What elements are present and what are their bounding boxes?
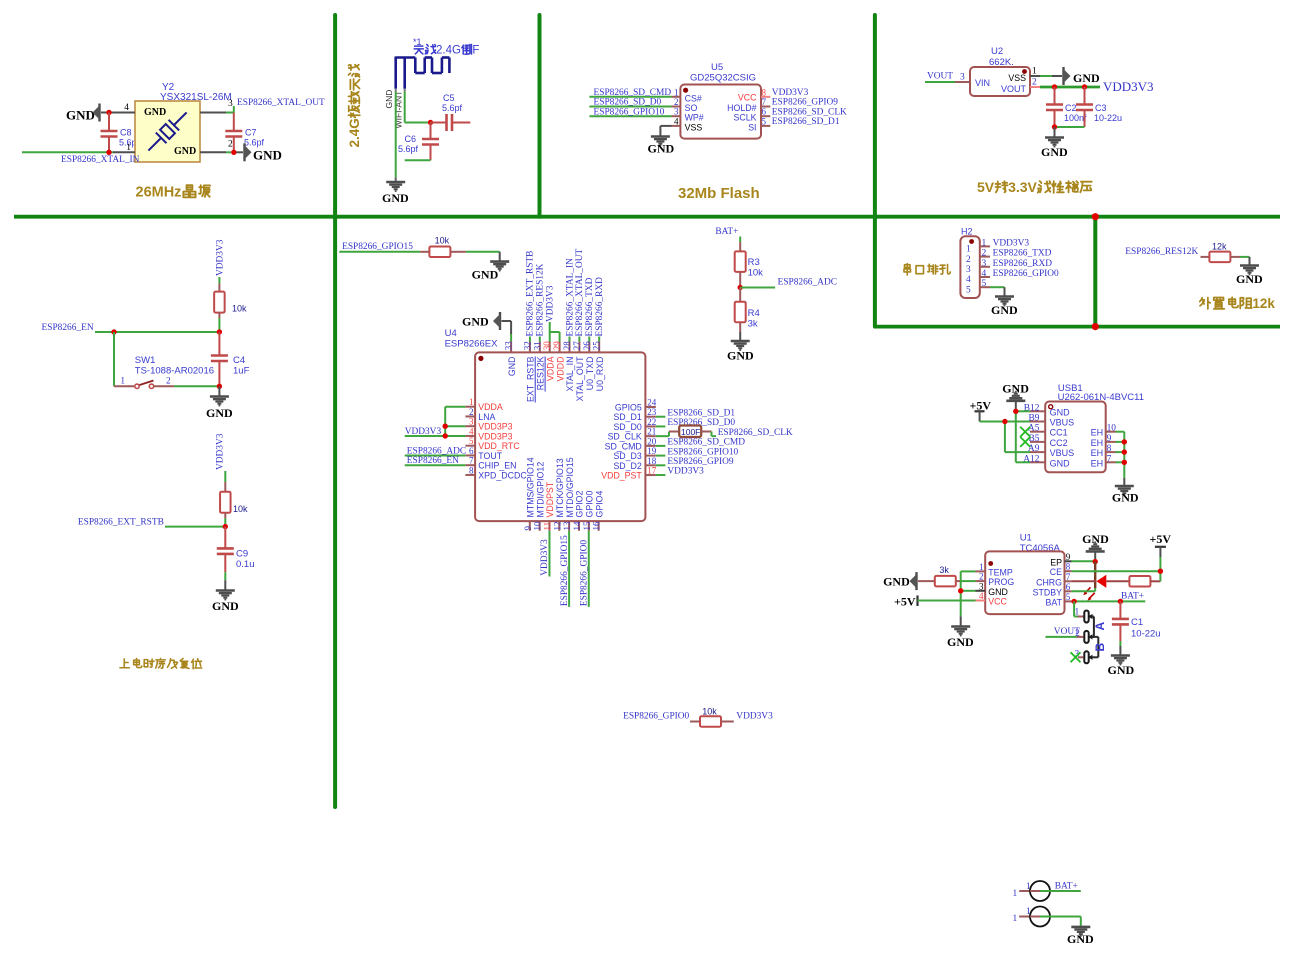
chip U4 pin 24 GPIO5 bbox=[615, 398, 657, 413]
svg-text:BAT: BAT bbox=[1046, 597, 1063, 607]
pin number 3 (U2) bbox=[960, 73, 965, 83]
section title 5V to 3.3V LDO bbox=[977, 179, 1092, 195]
svg-text:F: F bbox=[472, 45, 479, 57]
svg-text:2: 2 bbox=[966, 255, 971, 265]
svg-text:10k: 10k bbox=[232, 304, 247, 314]
flash U5 pin 8 VCC bbox=[738, 87, 770, 102]
svg-text:ESP8266_GPIO0: ESP8266_GPIO0 bbox=[623, 712, 689, 722]
wire pad P2 to ground bbox=[1080, 917, 1082, 926]
wire ESP8266_XTAL_IN bbox=[22, 151, 135, 153]
svg-text:1: 1 bbox=[982, 238, 987, 248]
svg-text:3: 3 bbox=[228, 99, 233, 109]
node label ESP8266_EXT_RSTB (U4 top, vertical) bbox=[526, 251, 536, 337]
svg-text:14: 14 bbox=[572, 521, 582, 531]
svg-text:4: 4 bbox=[469, 426, 474, 436]
svg-text:100F: 100F bbox=[681, 427, 700, 437]
node label ESP8266_RES12K bbox=[1125, 247, 1198, 257]
svg-text:A5: A5 bbox=[1028, 424, 1040, 434]
charger U1 pin 9 EP bbox=[1050, 552, 1071, 568]
svg-text:EH: EH bbox=[1091, 458, 1104, 468]
node junction C4-SW1-gnd bbox=[217, 384, 222, 389]
section border vertical left bbox=[333, 15, 337, 807]
svg-text:21: 21 bbox=[647, 427, 656, 437]
svg-text:29: 29 bbox=[552, 341, 562, 351]
wire antenna gnd leg bbox=[395, 89, 397, 178]
flash U5 body bbox=[680, 85, 761, 139]
svg-text:4: 4 bbox=[966, 275, 971, 285]
capacitor C3 10-22u bbox=[1076, 87, 1122, 127]
node label ESP8266_GPIO9 (U5 right) bbox=[772, 98, 838, 108]
svg-text:ESP8266_GPIO9: ESP8266_GPIO9 bbox=[667, 457, 733, 467]
node label ESP8266_XTAL_IN bbox=[61, 155, 140, 165]
svg-text:3.3V: 3.3V bbox=[1008, 179, 1037, 195]
svg-text:GND: GND bbox=[648, 142, 675, 156]
chip U4 pin 19 SD_D3 bbox=[613, 446, 656, 461]
wire U4 bottom pin 11 bbox=[548, 531, 550, 577]
svg-text:ESP8266_GPIO10: ESP8266_GPIO10 bbox=[594, 107, 665, 117]
capacitor C8 bbox=[101, 113, 118, 153]
svg-text:GND: GND bbox=[66, 108, 95, 123]
wire SW1 to C4 bottom bbox=[174, 385, 219, 387]
node label VDD3V3 (U4 bottom, vertical) bbox=[540, 539, 550, 576]
ground battery bbox=[1067, 927, 1094, 946]
node label ESP8266_SD_D1 (U4 right) bbox=[667, 408, 735, 418]
svg-text:GPIO0: GPIO0 bbox=[584, 491, 594, 518]
wire U4 right pin row 2 bbox=[656, 425, 666, 427]
charger U1 pin 4 VCC bbox=[976, 591, 1008, 607]
node junction RSTB-C9 bbox=[223, 524, 228, 529]
wire EH pins to ground bbox=[1116, 432, 1125, 478]
node label ESP8266_RXD (U4 top, vertical) bbox=[595, 277, 605, 337]
jumper label A (vertical) bbox=[1093, 622, 1107, 631]
flash U5 pin 7 HOLD# bbox=[727, 97, 770, 113]
svg-text:GND: GND bbox=[1050, 407, 1071, 417]
node junction C8 top bbox=[106, 110, 111, 115]
charger U1 pin 6 STDBY bbox=[1033, 582, 1072, 598]
svg-text:GND: GND bbox=[144, 107, 166, 118]
chip U4 pin 18 SD_D2 bbox=[613, 456, 656, 471]
node junction CE +5V bbox=[1158, 569, 1163, 574]
svg-text:GPIO4: GPIO4 bbox=[594, 491, 604, 518]
section title serial header bbox=[904, 264, 950, 275]
node label VDD3V3 (pullup right) bbox=[736, 712, 773, 722]
svg-text:5.6pf: 5.6pf bbox=[442, 103, 463, 113]
svg-text:SI: SI bbox=[748, 122, 756, 132]
node junction EH8 bbox=[1122, 449, 1127, 454]
svg-text:SW1: SW1 bbox=[135, 355, 156, 366]
node junction EN-C4 bbox=[217, 329, 222, 334]
wire U4 pin33 to ground bbox=[502, 321, 512, 342]
usb USB1 pin EH10 bbox=[1091, 424, 1117, 438]
wire ADC tap bbox=[740, 287, 775, 289]
ground U4 pin33 bbox=[462, 312, 500, 330]
svg-text:10k: 10k bbox=[435, 236, 450, 246]
svg-text:1: 1 bbox=[1032, 67, 1037, 77]
charger U1 pin 7 CHRG bbox=[1036, 572, 1072, 588]
node label ESP8266_GPIO0 (U4 bottom, vertical) bbox=[580, 540, 590, 606]
svg-text:VDD_PST: VDD_PST bbox=[601, 471, 642, 481]
svg-text:VDDD: VDDD bbox=[555, 357, 565, 382]
antenna ANT1 name bbox=[414, 45, 479, 57]
chip U4 pin 3 VDD3P3 bbox=[465, 417, 512, 432]
pin number 2 bbox=[228, 140, 233, 150]
node label VOUT (jumper) bbox=[1054, 627, 1080, 637]
svg-text:GND: GND bbox=[1050, 458, 1071, 468]
svg-text:ESP8266_SD_CLK: ESP8266_SD_CLK bbox=[718, 428, 793, 438]
wire U4 bottom pin 13 bbox=[568, 531, 570, 607]
node label VDD3V3 (U4 left) bbox=[405, 427, 442, 437]
svg-text:10k: 10k bbox=[702, 707, 717, 717]
wire R to EN node bbox=[218, 318, 220, 332]
wire ESP8266_EN to pin7 bbox=[405, 464, 466, 466]
svg-text:1: 1 bbox=[966, 245, 971, 255]
svg-text:B: B bbox=[1093, 643, 1107, 652]
crystal Y2 YSX321SL-26M bbox=[135, 82, 232, 162]
svg-text:GND: GND bbox=[988, 587, 1008, 597]
svg-text:ESP8266_SD_D1: ESP8266_SD_D1 bbox=[667, 408, 735, 418]
svg-text:EH: EH bbox=[1091, 428, 1104, 438]
ground antenna bbox=[382, 177, 409, 205]
wire (U4 top pin) bbox=[529, 337, 531, 342]
usb USB1 pin B5 CC2 bbox=[1028, 434, 1067, 448]
svg-text:18: 18 bbox=[647, 456, 657, 466]
svg-text:VDD3V3: VDD3V3 bbox=[216, 239, 226, 276]
wire R to RSTB node bbox=[224, 518, 226, 527]
svg-text:U2: U2 bbox=[991, 46, 1003, 57]
ground RSTB RC bbox=[212, 591, 239, 614]
wire pin3 Y2 to XTAL_OUT bbox=[200, 106, 234, 113]
wire U4 right pin row 1 bbox=[656, 416, 666, 418]
section border vertical serial-col bbox=[1093, 217, 1097, 327]
svg-text:ESP8266_SD_D1: ESP8266_SD_D1 bbox=[772, 117, 840, 127]
ground 12k bbox=[1236, 266, 1263, 287]
svg-text:12k: 12k bbox=[1252, 296, 1275, 311]
svg-text:XPD_DCDC: XPD_DCDC bbox=[478, 470, 527, 480]
svg-text:ESP8266_XTAL_OUT: ESP8266_XTAL_OUT bbox=[237, 98, 325, 108]
svg-text:GPIO2: GPIO2 bbox=[575, 491, 585, 518]
svg-text:2: 2 bbox=[469, 407, 474, 417]
svg-text:VDD3V3: VDD3V3 bbox=[667, 467, 704, 477]
resistor R 10k (RSTB pullup) bbox=[220, 482, 248, 518]
capacitor C6 5.6pf bbox=[398, 123, 439, 161]
svg-text:MTDO/GPIO15: MTDO/GPIO15 bbox=[565, 457, 575, 517]
svg-text:WP#: WP# bbox=[685, 113, 704, 123]
svg-text:7: 7 bbox=[469, 456, 474, 466]
svg-text:EH: EH bbox=[1091, 438, 1104, 448]
svg-text:2: 2 bbox=[979, 572, 984, 582]
node junction EN-switch bbox=[111, 329, 116, 334]
node junction antenna feed bbox=[428, 120, 433, 125]
svg-text:2: 2 bbox=[674, 97, 679, 107]
svg-text:6: 6 bbox=[469, 446, 474, 456]
flash U5 pin 3 WP# bbox=[672, 107, 704, 123]
wire CE to +5V bbox=[1072, 570, 1161, 572]
node label ESP8266_EN (U4) bbox=[407, 456, 459, 466]
svg-text:VOUT: VOUT bbox=[1001, 84, 1027, 94]
svg-text:22: 22 bbox=[647, 417, 656, 427]
wire U2 pin1 VSS to ground bbox=[1030, 75, 1062, 77]
node label ESP8266_GPIO10 (U4 right) bbox=[667, 447, 738, 457]
ground H2 bbox=[991, 297, 1018, 318]
led CHRG bbox=[1072, 575, 1107, 601]
wire (U4 top pin) bbox=[539, 337, 541, 342]
node junction C2 bottom bbox=[1052, 124, 1057, 129]
svg-text:ESP8266_ADC: ESP8266_ADC bbox=[778, 278, 837, 288]
svg-text:LNA: LNA bbox=[478, 412, 495, 422]
svg-text:3: 3 bbox=[982, 259, 987, 269]
svg-text:GND: GND bbox=[727, 349, 754, 363]
svg-text:CC1: CC1 bbox=[1050, 428, 1068, 438]
header H2 pin 2 bbox=[966, 249, 990, 265]
node label ESP8266_GPIO15 bbox=[342, 242, 413, 252]
svg-text:C1: C1 bbox=[1131, 617, 1143, 628]
node label ESP8266_TXD (H2) bbox=[993, 249, 1052, 259]
svg-text:5: 5 bbox=[1066, 592, 1071, 602]
resistor R 12k bbox=[1201, 242, 1241, 263]
svg-text:B9: B9 bbox=[1028, 414, 1039, 424]
charger U1 pin 2 PROG bbox=[976, 572, 1015, 588]
svg-text:HOLD#: HOLD# bbox=[727, 103, 756, 113]
antenna ANT1 inverted-F trace bbox=[396, 57, 450, 89]
wire (U4 top pin) bbox=[578, 337, 580, 342]
svg-text:ESP8266_RES12K: ESP8266_RES12K bbox=[1125, 247, 1198, 257]
junction on border bottom bbox=[1092, 323, 1099, 330]
wire pin4 Y2 to ground bbox=[101, 112, 135, 114]
wire U2 pin2 VOUT to VDD3V3 bbox=[1030, 86, 1100, 88]
regulator U2 662K labels bbox=[989, 46, 1014, 68]
pin number 2 (SW1) bbox=[166, 377, 171, 387]
section title 2.4G onboard antenna (vertical) bbox=[347, 65, 362, 148]
svg-text:26: 26 bbox=[582, 341, 592, 351]
node label ESP8266_GPIO9 (U4 right) bbox=[667, 457, 733, 467]
svg-text:SD_D0: SD_D0 bbox=[613, 422, 641, 432]
node label BAT+ (divider) bbox=[715, 227, 738, 237]
wire VOUT to jumper pin2 bbox=[1046, 636, 1084, 638]
svg-text:ESP8266_TXD: ESP8266_TXD bbox=[585, 277, 595, 336]
wire (U4 top pin) bbox=[598, 337, 600, 342]
node junction C2 top bbox=[1052, 84, 1057, 89]
ground USB shield bbox=[1112, 478, 1139, 505]
svg-text:20: 20 bbox=[647, 436, 657, 446]
chip U4 pin 25 U0_RXD bbox=[592, 341, 605, 392]
wire pin21 to filter bbox=[656, 432, 679, 437]
svg-text:BAT+: BAT+ bbox=[1055, 882, 1078, 892]
svg-text:SD_D1: SD_D1 bbox=[613, 412, 641, 422]
svg-text:VCC: VCC bbox=[738, 92, 757, 102]
svg-text:H2: H2 bbox=[961, 227, 973, 237]
svg-text:VIN: VIN bbox=[975, 78, 990, 88]
svg-text:BAT+: BAT+ bbox=[715, 227, 738, 237]
svg-text:8: 8 bbox=[1107, 444, 1112, 454]
svg-text:ESP8266EX: ESP8266EX bbox=[445, 339, 498, 350]
svg-text:VDD3V3: VDD3V3 bbox=[540, 539, 550, 576]
jumper pin 1 bbox=[1075, 608, 1093, 623]
usb USB1 pin B9 VBUS bbox=[1028, 414, 1074, 428]
usb USB1 pin B12 GND bbox=[1024, 403, 1070, 417]
usb USB1 pin A12 GND bbox=[1023, 454, 1070, 468]
svg-text:GND: GND bbox=[382, 191, 409, 205]
node label ESP8266_EN (left) bbox=[42, 323, 94, 333]
chip U4 pin 15 GPIO0 bbox=[582, 491, 595, 531]
svg-text:4: 4 bbox=[674, 116, 679, 126]
wire ESP8266_SD_D0 to U5 bbox=[589, 106, 671, 108]
chip U4 pin 16 GPIO4 bbox=[592, 491, 605, 531]
chip U4 pin 31 RES12K bbox=[532, 341, 545, 391]
usb USB1 pin A9 VBUS bbox=[1028, 444, 1074, 458]
svg-text:5.6pf: 5.6pf bbox=[244, 138, 265, 148]
chip U4 pin 6 TOUT bbox=[465, 446, 502, 461]
svg-text:32Mb Flash: 32Mb Flash bbox=[678, 185, 760, 202]
node label ESP8266_GPIO10 bbox=[594, 107, 665, 117]
pin number 3 bbox=[228, 99, 233, 109]
svg-text:ESP8266_EN: ESP8266_EN bbox=[42, 323, 94, 333]
svg-text:15: 15 bbox=[582, 521, 592, 531]
svg-text:VDD3P3: VDD3P3 bbox=[478, 431, 512, 441]
pin label GND (antenna) bbox=[384, 90, 394, 109]
svg-text:11: 11 bbox=[542, 522, 552, 531]
svg-text:TOUT: TOUT bbox=[478, 451, 502, 461]
svg-text:31: 31 bbox=[532, 341, 542, 350]
svg-text:3: 3 bbox=[966, 265, 971, 275]
ground divider bbox=[727, 341, 754, 363]
charger U1 pin 5 BAT bbox=[1046, 592, 1072, 608]
chip U4 pin 20 SD_CMD bbox=[605, 436, 657, 451]
usb USB1 pin A5 CC1 bbox=[1028, 424, 1068, 438]
pin number 1 bbox=[126, 143, 131, 153]
chip U4 ESP8266EX labels bbox=[445, 328, 498, 350]
svg-text:GND: GND bbox=[1041, 145, 1068, 159]
node label ESP8266_ADC (divider) bbox=[778, 278, 837, 288]
node label ESP8266_SD_CMD (U4 right) bbox=[667, 438, 745, 448]
svg-text:MTDI/GPIO12: MTDI/GPIO12 bbox=[535, 462, 545, 518]
svg-text:3k: 3k bbox=[748, 319, 758, 330]
chip U4 pin 17 VDD_PST bbox=[601, 466, 656, 481]
node label BAT+ (pad) bbox=[1055, 882, 1078, 892]
svg-text:1: 1 bbox=[126, 143, 131, 153]
jumper bracket A bbox=[1092, 617, 1094, 637]
ground EN RC bbox=[206, 386, 233, 420]
chip U4 pin 2 LNA bbox=[465, 407, 495, 422]
node label ESP8266_SD_D0 (U4 right) bbox=[667, 418, 735, 428]
usb USB1 pin EH8 bbox=[1091, 444, 1116, 458]
svg-text:GPIO5: GPIO5 bbox=[615, 403, 642, 413]
svg-text:VDD3V3: VDD3V3 bbox=[546, 285, 556, 322]
usb USB1 labels bbox=[1058, 383, 1144, 403]
svg-text:ESP8266_SD_CMD: ESP8266_SD_CMD bbox=[667, 438, 745, 448]
svg-text:ESP8266_SD_CMD: ESP8266_SD_CMD bbox=[594, 88, 672, 98]
node label ESP8266_RXD (H2) bbox=[993, 259, 1053, 269]
svg-text:C3: C3 bbox=[1095, 103, 1107, 113]
svg-text:32: 32 bbox=[522, 341, 532, 350]
chip U4 pin 13 MTDO/GPIO15 bbox=[562, 457, 575, 531]
wire U4 bottom pin 15 bbox=[588, 531, 590, 607]
section title external resistor 12k bbox=[1200, 296, 1276, 311]
wire ESP8266_EN bbox=[95, 331, 219, 333]
wire U4 right pin row 5 bbox=[656, 455, 666, 457]
svg-text:XTAL_IN: XTAL_IN bbox=[565, 357, 575, 392]
capacitor C9 0.1u bbox=[217, 527, 255, 573]
svg-text:5V: 5V bbox=[977, 179, 995, 195]
svg-text:C7: C7 bbox=[245, 128, 257, 138]
svg-text:28: 28 bbox=[562, 341, 572, 351]
svg-text:24: 24 bbox=[647, 398, 657, 408]
svg-text:STDBY: STDBY bbox=[1033, 587, 1062, 597]
svg-text:25: 25 bbox=[592, 341, 602, 351]
resistor R 10k (EN pullup) bbox=[214, 284, 247, 319]
chip U4 pin 33 GND bbox=[504, 341, 517, 376]
header H2 pin 1 bbox=[966, 238, 990, 254]
flash U5 pin 4 VSS bbox=[672, 116, 703, 132]
svg-text:R4: R4 bbox=[748, 308, 760, 319]
svg-text:8: 8 bbox=[469, 465, 474, 475]
node junction U1 gnd bbox=[958, 588, 963, 593]
section border vertical mid-top bbox=[538, 15, 542, 217]
header H2 body bbox=[960, 236, 979, 298]
no-connect X jumper pin3 bbox=[1071, 652, 1084, 662]
svg-text:VDDA: VDDA bbox=[478, 402, 503, 412]
svg-text:1: 1 bbox=[1013, 914, 1018, 924]
jumper label B (vertical) bbox=[1093, 643, 1107, 652]
svg-text:10k: 10k bbox=[233, 504, 248, 514]
usb USB1 pin EH7 bbox=[1091, 454, 1116, 468]
svg-text:VCC: VCC bbox=[988, 597, 1007, 607]
node label ESP8266_SD_CLK (U4 right) bbox=[718, 428, 793, 438]
node label VDD3V3 (regulator out) bbox=[1103, 79, 1154, 94]
wire BAT net bbox=[1072, 600, 1146, 602]
svg-text:SD_D2: SD_D2 bbox=[613, 461, 641, 471]
wire H2 pin5 to ground bbox=[990, 287, 1005, 295]
node label VOUT (U2 in) bbox=[927, 72, 953, 82]
wire R to ground elbow bbox=[466, 252, 500, 261]
svg-text:VDD_RTC: VDD_RTC bbox=[478, 441, 520, 451]
svg-text:5.6pf: 5.6pf bbox=[398, 144, 419, 154]
svg-text:5: 5 bbox=[762, 116, 767, 126]
resistor (LED series) bbox=[1106, 576, 1160, 587]
header H2 pin 3 bbox=[966, 259, 990, 275]
svg-text:VOUT: VOUT bbox=[927, 72, 953, 82]
svg-text:4: 4 bbox=[979, 591, 984, 601]
node junction C7 bottom bbox=[231, 150, 236, 155]
battery pad P1 bbox=[1013, 881, 1081, 901]
wire U4 right pin row 4 bbox=[656, 445, 666, 447]
svg-text:19: 19 bbox=[647, 446, 657, 456]
capacitor C1 10-22u bbox=[1112, 601, 1161, 641]
node label ESP8266_EXT_RSTB bbox=[78, 518, 164, 528]
wire BAT to jumper pin1 bbox=[1074, 601, 1083, 616]
wire TEMP/PROG bus bbox=[961, 571, 976, 616]
section title power-on sequence and reset bbox=[120, 658, 202, 668]
svg-text:ESP8266_RXD: ESP8266_RXD bbox=[993, 259, 1053, 269]
pin number 1 (SW1) bbox=[120, 377, 125, 387]
chip U4 pin 5 VDD_RTC bbox=[465, 436, 520, 451]
usb USB1 pin EH9 bbox=[1091, 434, 1116, 448]
svg-text:2: 2 bbox=[1032, 78, 1037, 88]
svg-text:ESP8266_SD_D0: ESP8266_SD_D0 bbox=[594, 98, 662, 108]
svg-text:ESP8266_RXD: ESP8266_RXD bbox=[595, 277, 605, 337]
svg-text:EH: EH bbox=[1091, 448, 1104, 458]
node label ESP8266_GPIO0 (pullup) bbox=[623, 712, 689, 722]
chip U4 pin 11 VDDPST bbox=[542, 481, 555, 531]
flash U5 pin 1 CS# bbox=[672, 87, 702, 103]
svg-text:1: 1 bbox=[1013, 889, 1018, 899]
svg-text:ESP8266_SD_CLK: ESP8266_SD_CLK bbox=[772, 107, 847, 117]
svg-text:6: 6 bbox=[762, 107, 767, 117]
ground regulator bbox=[1041, 127, 1068, 159]
wire C9 to ground bbox=[224, 572, 226, 589]
ground right of Y2 bbox=[245, 143, 282, 162]
svg-text:+5V: +5V bbox=[1150, 532, 1172, 546]
svg-text:2: 2 bbox=[982, 249, 987, 259]
